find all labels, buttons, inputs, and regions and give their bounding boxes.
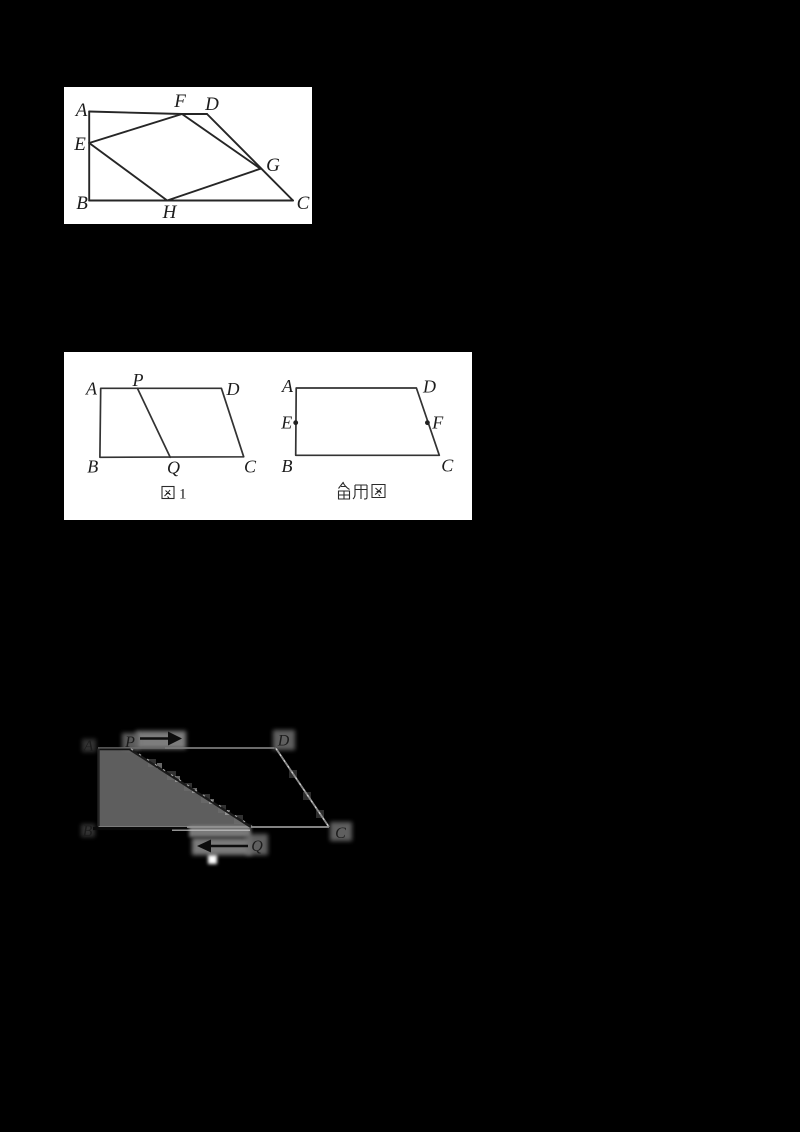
wire segment PQ xyxy=(137,388,170,457)
wire diagonal PQ xyxy=(130,750,251,828)
svg-text:C: C xyxy=(441,455,454,475)
wire segment GH xyxy=(167,169,260,201)
svg-text:F: F xyxy=(431,413,444,433)
wire top AD xyxy=(98,747,276,749)
svg-text:A: A xyxy=(281,376,294,396)
wire diagonal PQ speckles xyxy=(131,749,252,827)
svg-text:E: E xyxy=(280,413,292,433)
wire trapezoid2 ABCD xyxy=(296,388,440,455)
figure 1 white panel xyxy=(64,87,312,224)
shaded region ABQP xyxy=(99,750,252,827)
halo right arrow xyxy=(136,731,186,749)
wire top AP dark overlay xyxy=(99,748,130,750)
arrow left head xyxy=(197,840,211,853)
svg-text:C: C xyxy=(335,825,346,842)
arrow right head xyxy=(168,732,182,746)
halo label P xyxy=(122,733,139,750)
wire segment FG xyxy=(182,114,261,169)
wire side DC speckles xyxy=(276,749,329,828)
svg-text:F: F xyxy=(173,91,186,112)
svg-text:G: G xyxy=(266,155,280,176)
wire side BC xyxy=(89,200,293,202)
wire side DC xyxy=(207,114,293,201)
halo label B xyxy=(81,824,95,837)
wire side AB xyxy=(88,112,90,201)
svg-text:D: D xyxy=(422,377,436,397)
jpeg block speckles along diagonal xyxy=(148,759,324,824)
wire segment EF xyxy=(89,114,182,143)
node dot E xyxy=(293,420,298,425)
svg-text:D: D xyxy=(226,379,240,399)
figure 3 ghost diagram xyxy=(60,710,380,880)
svg-text:1: 1 xyxy=(179,487,187,503)
wire bottom bright sliver xyxy=(172,829,250,831)
svg-text:Q: Q xyxy=(251,838,263,855)
wire trapezoid1 ABCD xyxy=(100,388,244,457)
white speck xyxy=(208,855,217,864)
halo label D xyxy=(273,730,295,750)
halo label A xyxy=(82,739,96,752)
caption tu1 xyxy=(162,487,174,499)
svg-text:D: D xyxy=(277,733,290,750)
svg-text:A: A xyxy=(85,379,98,399)
wire bottom BC xyxy=(99,826,330,828)
arrow right shaft xyxy=(140,737,173,740)
node dot F xyxy=(425,420,430,425)
wire segment HE xyxy=(89,143,167,201)
svg-text:Q: Q xyxy=(167,458,180,478)
halo label C xyxy=(330,822,352,841)
svg-text:E: E xyxy=(73,134,86,155)
arrow left shaft xyxy=(208,845,248,848)
svg-text:B: B xyxy=(76,193,88,214)
wire side DC xyxy=(276,749,329,828)
caption beiyongtu xyxy=(339,482,386,499)
figure 2 white panel xyxy=(64,352,472,520)
wire bottom dark segment xyxy=(93,827,187,830)
svg-text:D: D xyxy=(204,94,219,115)
svg-text:B: B xyxy=(83,823,93,840)
svg-text:P: P xyxy=(124,734,135,751)
halo left arrow xyxy=(192,838,252,855)
svg-text:A: A xyxy=(74,100,88,121)
svg-text:P: P xyxy=(132,370,144,390)
svg-text:B: B xyxy=(87,457,98,477)
svg-text:C: C xyxy=(244,457,257,477)
svg-text:B: B xyxy=(282,456,293,476)
svg-text:A: A xyxy=(83,738,94,755)
svg-text:H: H xyxy=(162,202,178,223)
wire side AFD top xyxy=(89,112,207,115)
halo band under bottom edge xyxy=(189,826,251,837)
wire top PD lighter part xyxy=(165,747,274,749)
wire side AB xyxy=(97,749,99,827)
svg-text:C: C xyxy=(297,193,310,214)
halo label Q xyxy=(246,834,268,855)
